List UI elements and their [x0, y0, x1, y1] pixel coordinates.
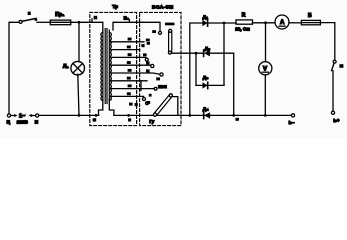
diode D3 — [203, 82, 208, 88]
tap 2 wire — [111, 49, 140, 51]
wire row2 D2 to bus234 — [210, 53, 234, 115]
tap 1 wire — [111, 41, 145, 43]
label tap1 a — [146, 39, 150, 42]
tap 5 wire — [111, 73, 160, 74]
wire jumper output — [172, 97, 177, 116]
node junction bus190 bottom — [188, 114, 191, 117]
svg-text:Гу: Гу — [149, 119, 154, 124]
svg-text:Тр: Тр — [112, 4, 118, 10]
svg-text:R: R — [242, 12, 246, 18]
bus 196 vertical — [195, 53, 197, 85]
svg-text:Пр₁: Пр₁ — [55, 12, 64, 18]
mains arrows 1~ — [11, 114, 35, 117]
wire secondary bottom lead — [109, 99, 114, 115]
enclosure Tr dashed box — [90, 12, 137, 125]
terminal A marker on enclosure — [92, 16, 97, 22]
terminal v (enclosure bottom, primary) — [93, 118, 97, 121]
fuse Pr2 — [301, 20, 320, 24]
wire D1 to R — [208, 22, 237, 24]
diode D4 (on bottom rail) — [204, 112, 210, 118]
node junction 130 — [127, 114, 130, 117]
wire R to ammeter — [253, 22, 276, 24]
label b2 — [129, 103, 133, 106]
switch B2 — [332, 60, 337, 71]
transformer secondary winding — [109, 30, 111, 101]
transformer core — [105, 29, 107, 104]
label tap3 — [143, 53, 147, 56]
svg-text:Ь–: Ь– — [289, 120, 295, 125]
wire primary bottom lead — [99, 100, 103, 115]
node junction lamp bottom — [78, 114, 81, 117]
diode D2 — [204, 50, 210, 56]
terminal mains N — [36, 114, 39, 117]
label tap7 left — [128, 84, 132, 87]
terminal output minus — [291, 114, 294, 117]
switch B (mains) — [19, 18, 37, 23]
terminal tap4 — [151, 64, 154, 67]
label tap8 left — [127, 92, 131, 95]
svg-text:V: V — [263, 66, 267, 72]
node junction voltmeter bottom — [264, 114, 267, 117]
wire switch to fuse — [37, 21, 50, 23]
bus 224 vertical — [223, 23, 225, 85]
node junction primary-neutral — [95, 114, 98, 117]
label tap6 left — [127, 77, 131, 80]
node junction bus224 top — [223, 22, 226, 25]
wire fuse to transformer primary — [71, 22, 103, 31]
label B1 tick — [128, 19, 130, 22]
label selector plate — [165, 23, 175, 26]
label minus terminal mid — [235, 118, 239, 121]
wire fuse2 to switch2 — [320, 23, 334, 61]
label tap5 left — [128, 69, 132, 72]
voltmeter V — [259, 62, 272, 75]
terminal mains L — [7, 114, 10, 117]
svg-text:Б: Б — [308, 13, 312, 19]
svg-text:Д₃: Д₃ — [203, 75, 209, 81]
svg-text:Д₄: Д₄ — [203, 106, 209, 112]
wire switch2 to battery terminal — [332, 71, 334, 111]
node junction bus234 bottom — [232, 114, 235, 117]
bus 190 vertical — [190, 23, 203, 115]
terminal square tr bottom right — [128, 118, 131, 121]
svg-text:Д₁: Д₁ — [203, 14, 208, 20]
terminal battery plus — [331, 111, 334, 114]
wire row3 — [196, 84, 224, 86]
svg-text:220В: 220В — [17, 120, 29, 125]
enclosure selector dashed box — [140, 12, 181, 125]
ammeter A — [275, 15, 289, 29]
terminal square selector left edge — [135, 103, 138, 106]
lamp L1 — [71, 61, 85, 75]
node junction row2 bus196 — [195, 52, 198, 55]
tap 6 wire — [111, 80, 148, 82]
tap 7 wire — [111, 88, 155, 90]
label tap2 left — [127, 46, 131, 49]
label tap4 — [146, 61, 150, 64]
svg-text:Б₁: Б₁ — [124, 15, 129, 20]
svg-text:Л₁: Л₁ — [63, 64, 69, 70]
label tap5 — [146, 69, 150, 72]
wire bottom rail right — [114, 114, 292, 116]
wire bottom rail left — [39, 114, 99, 116]
terminal square selector tap — [141, 44, 144, 47]
label B2 — [339, 64, 343, 68]
label tap3 left — [128, 53, 132, 56]
tap6 selector stub — [140, 81, 142, 91]
terminal tap3 — [145, 58, 148, 61]
terminal tap8 — [143, 98, 146, 101]
terminal spare — [146, 102, 149, 105]
svg-text:10, Ом: 10, Ом — [235, 26, 250, 31]
jumper diagonal (selected tap) — [153, 94, 172, 116]
transformer primary winding — [101, 32, 103, 101]
jumper vertical (voltage link) — [168, 29, 171, 54]
wire ammeter to fuse2 — [289, 22, 301, 24]
label 6a — [152, 30, 156, 33]
label tap4 left — [127, 61, 131, 64]
label tap1 b — [147, 42, 150, 45]
wire lamp branch lower — [78, 74, 79, 115]
tap 3 wire — [111, 56, 147, 59]
terminal tap7 — [154, 87, 157, 90]
svg-text:Д₂: Д₂ — [205, 46, 211, 52]
wire row2 jumper to D2 — [171, 52, 203, 54]
fuse Pr1 — [50, 20, 70, 25]
wire left vertical mains — [9, 22, 19, 114]
svg-text:ВСА-5М: ВСА-5М — [152, 4, 174, 10]
diode D1 — [202, 20, 207, 26]
svg-text:Ь+: Ь+ — [333, 118, 339, 123]
label tap6 — [156, 77, 160, 80]
node junction lamp top — [78, 21, 81, 24]
wire voltmeter upper — [265, 23, 267, 62]
wire voltmeter lower — [264, 75, 266, 116]
tap 4 wire — [111, 64, 151, 66]
label B (switch) — [28, 12, 31, 15]
label tap8 — [147, 101, 151, 104]
wire lamp branch upper — [78, 22, 80, 62]
terminal selector top — [159, 31, 162, 34]
svg-text:ПВЛ: ПВЛ — [158, 84, 167, 89]
node junction voltmeter top — [264, 21, 267, 24]
terminal tap5 — [160, 73, 163, 76]
svg-text:A: A — [280, 20, 285, 26]
label tap1 left — [128, 38, 132, 41]
resistor R — [236, 20, 253, 24]
tap 8 wire — [111, 96, 144, 97]
label tap7 square — [149, 94, 152, 97]
wire secondary top lead to selector — [113, 22, 160, 31]
